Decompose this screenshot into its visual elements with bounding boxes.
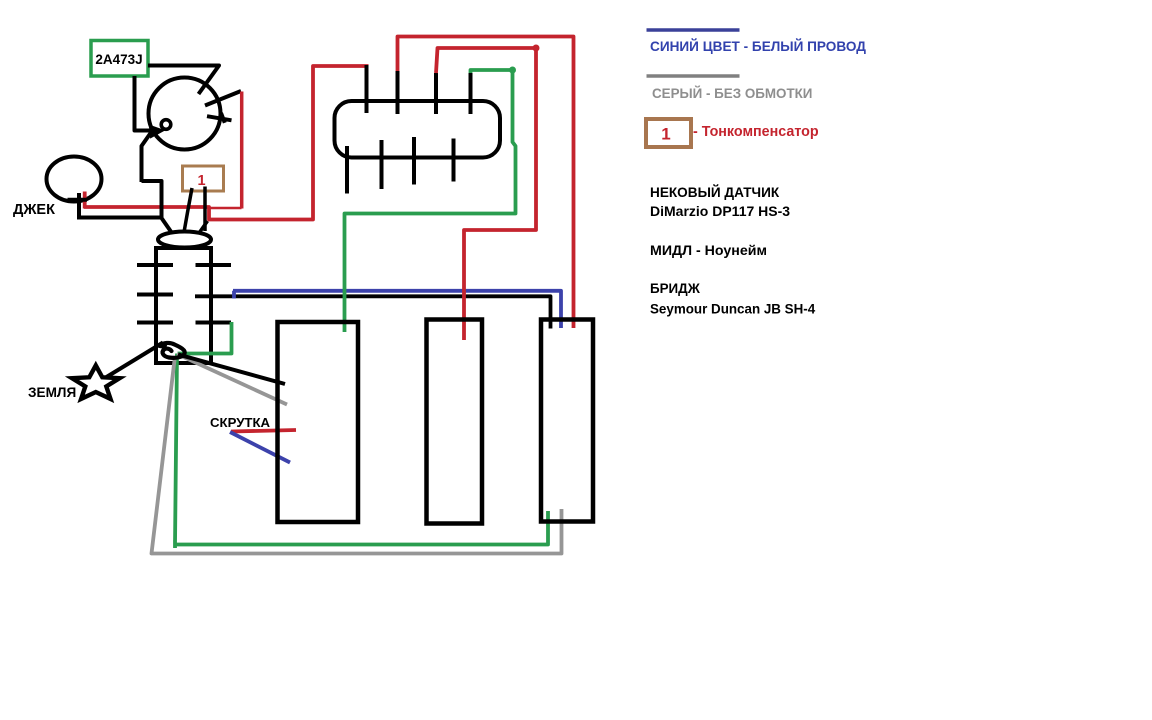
tone pot left ticks [137, 265, 173, 323]
wire tone pot stub to ellipse [196, 221, 208, 238]
svg-text:МИДЛ - Ноунейм: МИДЛ - Ноунейм [650, 243, 767, 259]
switch body [335, 101, 501, 158]
svg-text:СЕРЫЙ - БЕЗ ОБМОТКИ: СЕРЫЙ - БЕЗ ОБМОТКИ [652, 86, 812, 101]
black wire lug to neck pickup [178, 354, 285, 384]
switch bottom ticks [347, 137, 454, 194]
capacitor box 2A473J [91, 41, 148, 77]
svg-text:1: 1 [661, 125, 670, 144]
neck pickup [278, 322, 359, 522]
wires tone box to tone pot [184, 188, 193, 235]
jack ellipse [47, 157, 102, 202]
green wire lug down to bottom bus [175, 354, 177, 549]
tone pot body [156, 248, 211, 363]
ground star [72, 365, 120, 399]
legend tone box [646, 119, 691, 147]
red junction dot [533, 45, 540, 52]
svg-text:СКРУТКА: СКРУТКА [210, 415, 271, 430]
svg-text:Seymour Duncan JB SH-4: Seymour Duncan JB SH-4 [650, 302, 816, 317]
jack terminal tick [68, 193, 88, 218]
blue wire pot to bridge pickup [233, 291, 561, 328]
gray wire lug to bottom bus [152, 356, 562, 554]
green wire switch lug4 to neck pickup [345, 70, 516, 332]
svg-text:ДЖЕК: ДЖЕК [13, 202, 55, 218]
svg-text:- Тонкомпенсатор: - Тонкомпенсатор [693, 124, 819, 140]
blue twist line [230, 432, 290, 463]
arrowhead at volume pot lug [150, 126, 163, 137]
bridge pickup [541, 320, 593, 522]
red wire switch lug3 to middle pickup [436, 48, 536, 340]
wire capacitor top terminal [148, 66, 219, 95]
tone pot right ticks [196, 265, 232, 323]
tone box 1 [183, 166, 224, 191]
red twist line [231, 430, 296, 432]
red stub at jack [83, 192, 87, 209]
wire volume pot to tone pot junction [142, 131, 153, 182]
switch top ticks [367, 65, 471, 114]
wire jack to tone pot [77, 181, 162, 218]
green bottom bus [175, 511, 548, 545]
svg-text:НЕКОВЫЙ ДАТЧИК: НЕКОВЫЙ ДАТЧИК [650, 185, 780, 200]
svg-text:СИНИЙ ЦВЕТ - БЕЛЫЙ ПРОВОД: СИНИЙ ЦВЕТ - БЕЛЫЙ ПРОВОД [650, 39, 866, 54]
svg-text:DiMarzio DP117 HS-3: DiMarzio DP117 HS-3 [650, 203, 790, 219]
volume pot right terminal lower [207, 113, 232, 123]
black wire pot to bridge pickup [195, 296, 551, 328]
red wire jack to switch lug 1 [84, 66, 369, 220]
wire from capacitor to volume pot [135, 76, 151, 131]
svg-text:ЗЕМЛЯ: ЗЕМЛЯ [28, 385, 76, 400]
legend gray line [647, 74, 740, 78]
volume pot circle [149, 78, 221, 150]
tone pot top ellipse [158, 232, 211, 248]
red wire junction to volume pot terminal [209, 207, 242, 209]
red wire switch lug2 to bridge pickup [398, 37, 574, 329]
gray wire lug to neck pickup [177, 354, 287, 405]
green wire pot lug L [178, 322, 232, 354]
volume pot small lug circle [161, 120, 171, 130]
svg-text:2A473J: 2A473J [95, 52, 142, 67]
wire junction to tone pot top [162, 218, 175, 236]
svg-text:БРИДЖ: БРИДЖ [650, 281, 701, 296]
volume pot right terminal upper [205, 91, 241, 106]
middle pickup [427, 320, 483, 524]
green junction dot [509, 67, 516, 74]
pot ground lug [160, 343, 185, 358]
black wire lug to ground star [107, 343, 164, 378]
legend blue line [647, 28, 740, 32]
